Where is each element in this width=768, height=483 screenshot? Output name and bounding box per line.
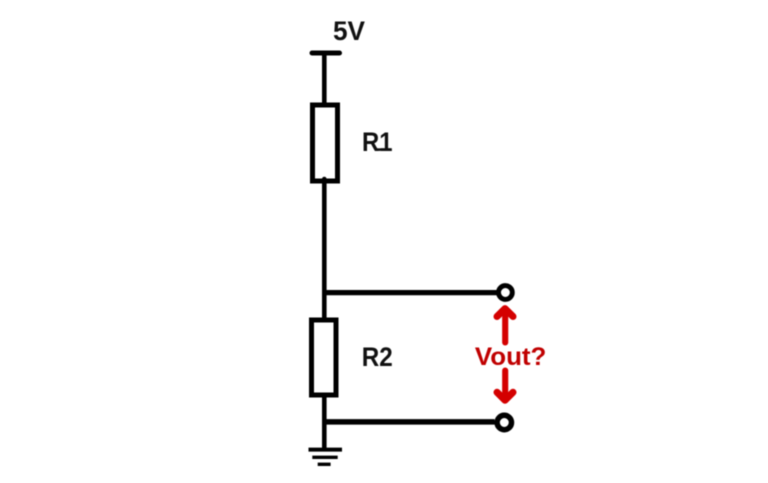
Vout measurement arrow (down head) xyxy=(497,371,513,401)
terminal: Vout+ open circle xyxy=(499,286,513,300)
wire: output node to Vout+ terminal xyxy=(322,290,497,295)
wire: ground node to ground symbol xyxy=(322,421,327,448)
resistor R2 xyxy=(312,320,337,395)
resistor R1 xyxy=(313,105,338,181)
svg-text:R2: R2 xyxy=(362,342,393,372)
svg-text:R1: R1 xyxy=(362,127,393,157)
wire: output node to R2 pin 1 xyxy=(322,292,327,321)
Vout measurement arrow (up head) xyxy=(497,309,513,343)
wire: 5V rail to R1 pin 1 xyxy=(322,53,327,106)
power terminal bar (5V rail) xyxy=(312,51,340,56)
svg-text:Vout?: Vout? xyxy=(475,343,547,371)
wire: R2 pin 2 to ground node xyxy=(322,393,327,424)
ground symbol xyxy=(309,450,343,465)
terminal: Vout- open circle xyxy=(497,415,511,429)
wire: ground node to Vout- terminal xyxy=(322,419,495,425)
wire: R1 pin 2 to output node xyxy=(322,179,327,295)
svg-text:5V: 5V xyxy=(333,16,365,46)
